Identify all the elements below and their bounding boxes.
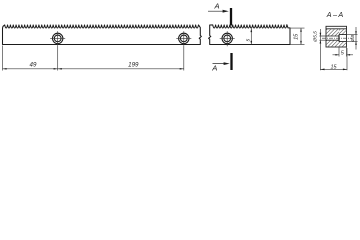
depth 5 dim lines (333, 54, 354, 56)
hole 2 through circle (180, 35, 187, 42)
svg-text:199: 199 (128, 61, 139, 68)
hole 3 center cross (220, 37, 235, 39)
hole 2 center cross (176, 37, 191, 39)
section cut arrow top: line (208, 10, 227, 12)
section width 15: right ext line (346, 48, 348, 70)
svg-text:15: 15 (331, 64, 338, 70)
hole counterbore lines (339, 35, 347, 42)
dim at x251 arrows (250, 29, 252, 33)
hole 1 counterbore circle (53, 33, 63, 43)
hole 3 counterbore circle (222, 33, 232, 43)
counterbore step line (338, 35, 340, 42)
dia 5,5 arrows (320, 33, 322, 36)
hole 3 through circle (224, 35, 231, 42)
dia 5,5 dim line (319, 29, 321, 70)
dia 8 arrows (355, 31, 357, 34)
svg-text:Ø5,5: Ø5,5 (312, 31, 318, 43)
main height dim 15 extension bottom (290, 44, 305, 46)
section cut arrow top: head (223, 10, 229, 13)
arrow at hole1 (54, 68, 58, 70)
rack body left part with teeth (3, 25, 202, 45)
section cut thick line top (230, 8, 232, 26)
section cut thick line bottom (230, 53, 232, 70)
main height dim 15 line (300, 28, 302, 44)
rack body right part with teeth (209, 25, 290, 45)
hole small bore lines (326, 36, 339, 40)
section tooth root line (326, 28, 347, 30)
dim at x251 line (250, 29, 252, 45)
svg-text:A: A (213, 2, 219, 11)
hole 1 center cross (50, 37, 65, 39)
dia 5,5 ext lines (319, 36, 326, 40)
arrow at hole2 (180, 68, 184, 70)
arrow left end (3, 68, 7, 70)
section center line (322, 37, 351, 39)
svg-text:5: 5 (341, 50, 345, 56)
hole 2 counterbore circle (179, 33, 189, 43)
section cut arrow bottom: head (224, 62, 230, 65)
extension line left end (2, 46, 4, 71)
svg-text:49: 49 (30, 62, 37, 69)
depth 5 arrows (335, 54, 339, 56)
section width 15 dim line (320, 68, 347, 70)
svg-text:15: 15 (293, 33, 299, 40)
svg-text:Ø8: Ø8 (350, 35, 356, 43)
section cut arrow bottom: line (213, 63, 228, 65)
arrow at hole1 right side (58, 68, 62, 70)
svg-text:A – A: A – A (326, 10, 344, 19)
dimension line 49 / 199 (3, 68, 184, 70)
counterbore depth 5: ext lines (339, 48, 347, 57)
section width 15 arrows (320, 69, 324, 71)
main 15 arrows (300, 28, 302, 32)
main height dim 15 extension top (288, 27, 304, 29)
dia 8 ext lines (347, 35, 358, 42)
extension line hole 2 (183, 46, 185, 71)
hole 1 through circle (54, 35, 61, 42)
svg-text:A: A (211, 64, 217, 73)
svg-text:5: 5 (245, 39, 251, 42)
section body rect (326, 26, 347, 47)
section hatch (326, 29, 347, 47)
extension line hole 1 (57, 46, 59, 71)
dia 8 dim line (355, 27, 357, 50)
